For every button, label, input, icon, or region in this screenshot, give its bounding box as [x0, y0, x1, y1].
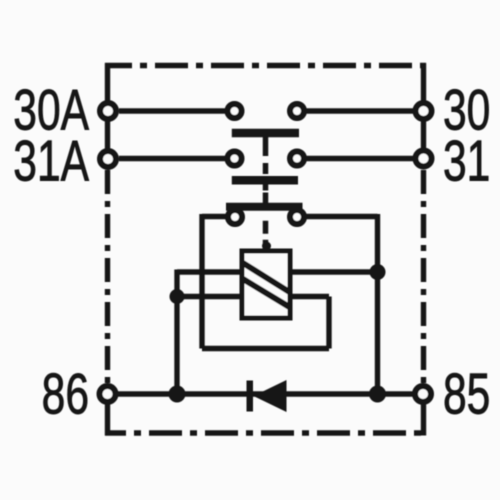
- junction x=177 y=394: [169, 386, 186, 403]
- label terminal 31: [443, 128, 490, 193]
- wire fixed contact to 30 (row 1 right): [305, 108, 415, 113]
- label terminal 30: [443, 77, 490, 142]
- wire inner box left vertical x=202: [199, 214, 204, 349]
- wire inner box bottom y=348.5: [202, 346, 329, 351]
- wire coil lower (y=296.5 from junction to x=329 corner): [177, 294, 329, 299]
- relay coil (hatched rectangle): [242, 251, 291, 318]
- wire 30A to fixed contact (row 1 left): [119, 108, 227, 113]
- fixed contact row 3 left: [228, 210, 242, 224]
- fixed contact row 1 left: [228, 104, 242, 118]
- fixed contact row 2 right: [290, 152, 304, 166]
- terminal 31: [416, 151, 432, 167]
- housing border top (dash-dot): [105, 63, 426, 68]
- label terminal 30A: [13, 77, 89, 142]
- actuator dashed link lower (bridge bar 3 to coil): [263, 211, 269, 251]
- junction x=177 y=296.5: [170, 289, 185, 304]
- wire bottom 86 to 85 (y=394): [108, 391, 424, 396]
- actuator dot on coil top: [262, 242, 271, 251]
- housing border left upper (solid through terminals 30A/31A): [105, 63, 110, 151]
- housing border left lower (solid through terminal 86): [105, 384, 110, 436]
- svg-text:31A: 31A: [13, 128, 89, 193]
- wire coil upper (y=272 from x=177 corner to right bus): [177, 269, 378, 274]
- label terminal 31A: [13, 128, 89, 193]
- housing border right upper (solid through terminals 30/31): [421, 63, 426, 151]
- wire inner box right vertical x=329: [326, 297, 331, 349]
- terminal 30A: [100, 103, 116, 119]
- actuator dashed link middle (below bridge bar 2): [263, 185, 269, 204]
- bridge bar contact row 2 (31A-31): [232, 176, 298, 185]
- housing border right lower (solid through terminal 85): [421, 384, 426, 436]
- wire 31A to fixed contact (row 2 left): [119, 156, 227, 161]
- wire row 3 right (fixed contact to right bus x=377.5): [304, 214, 378, 219]
- svg-text:31: 31: [443, 128, 490, 193]
- wire fixed contact to 31 (row 2 right): [305, 156, 415, 161]
- wire left bus vertical x=177 (corner y=272 down to 86 wire): [174, 270, 179, 395]
- housing border right middle (dash-dot): [421, 170, 426, 384]
- wire right bus vertical x=377.5 (row3 corner down to 85 wire): [375, 214, 380, 394]
- svg-text:86: 86: [42, 361, 89, 426]
- terminal 30: [416, 103, 432, 119]
- housing border left middle (dash-dot): [105, 170, 110, 384]
- housing border bottom (dash-dot): [105, 430, 426, 435]
- bridge bar contact row 3 (coil circuit): [226, 203, 303, 211]
- wire row 3 left (corner x=202 to fixed contact): [202, 214, 228, 219]
- terminal 85: [415, 386, 431, 402]
- actuator dashed link upper (below bridge bar 1): [263, 137, 269, 176]
- junction x=377.5 y=394: [369, 386, 386, 403]
- junction x=377.5 y=272: [370, 264, 386, 280]
- terminal 31A: [100, 151, 116, 167]
- fixed contact row 1 right: [290, 104, 304, 118]
- terminal 86: [100, 386, 116, 402]
- diode triangle (pointing left): [254, 380, 287, 412]
- bridge bar contact row 1 (30A-30): [232, 129, 299, 138]
- fixed contact row 3 right: [290, 210, 304, 224]
- fixed contact row 2 left: [228, 152, 242, 166]
- diode cathode bar: [247, 381, 254, 412]
- svg-text:85: 85: [443, 361, 490, 426]
- label terminal 86: [42, 361, 89, 426]
- label terminal 85: [443, 361, 490, 426]
